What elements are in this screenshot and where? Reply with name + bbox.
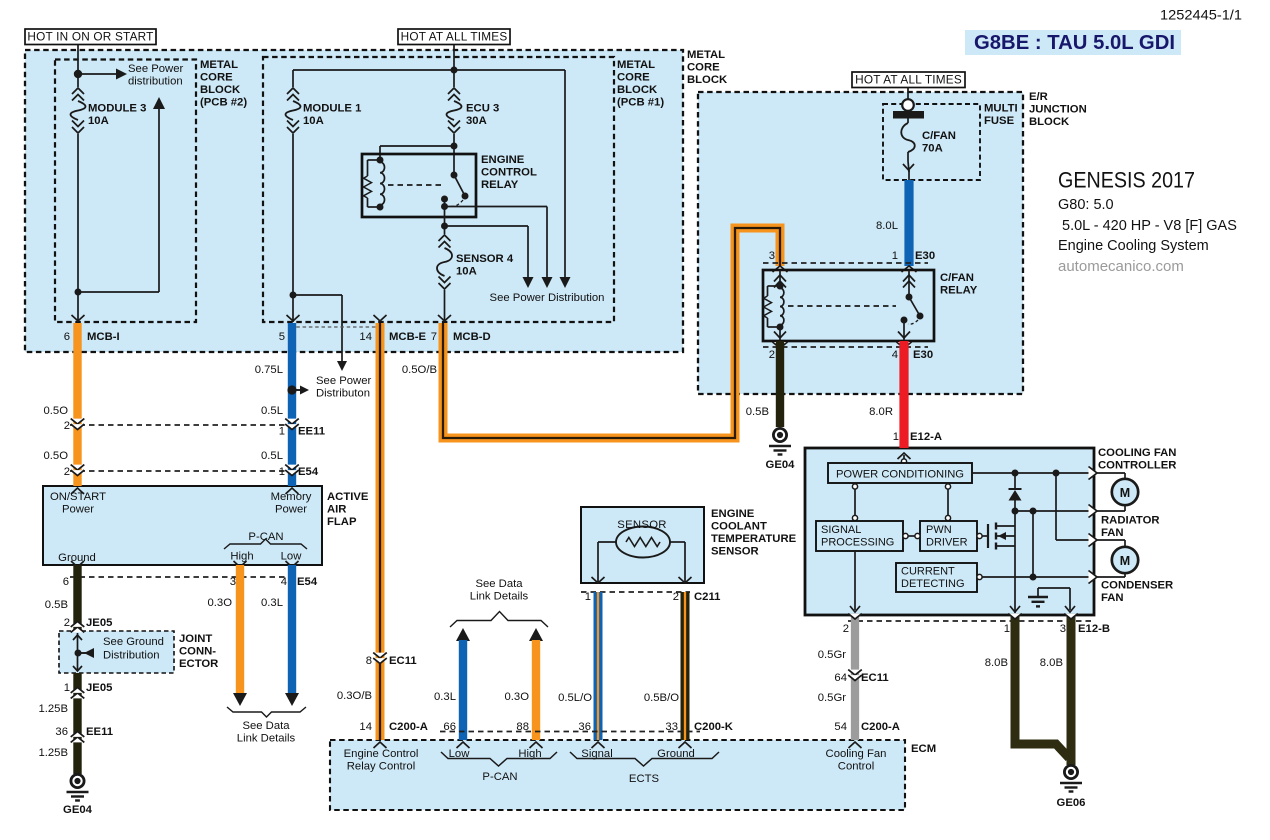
- header HOT IN ON OR START: [25, 29, 156, 45]
- wire CD to condenser return: [982, 576, 1090, 578]
- relay CFR coil wire in: [779, 270, 781, 286]
- svg-text:COOLING FAN: COOLING FAN: [1098, 447, 1176, 459]
- svg-text:PWN: PWN: [926, 524, 952, 536]
- dashed segment below stub 5: [290, 326, 378, 328]
- connector chevron stub MCB-E: [374, 315, 387, 321]
- svg-text:2: 2: [843, 623, 849, 635]
- svg-text:C/FAN: C/FAN: [940, 272, 974, 284]
- fuse SENSOR 4 10A: [439, 235, 451, 241]
- arrow from data link L: [456, 628, 470, 641]
- svg-text:BLOCK: BLOCK: [1029, 116, 1070, 128]
- wire 0.5L/O signal: [594, 592, 603, 740]
- wire branch to see-power arrow: [293, 294, 342, 296]
- svg-text:EC11: EC11: [389, 655, 417, 667]
- svg-text:Distributon: Distributon: [316, 388, 370, 400]
- relay CFR dashed arc: [908, 320, 918, 324]
- svg-text:PROCESSING: PROCESSING: [821, 537, 894, 549]
- arrow down see power distributon: [337, 361, 347, 371]
- dashed row EE11: [70, 424, 296, 426]
- svg-text:Engine Control: Engine Control: [344, 748, 419, 760]
- coolant temp sensor box: [581, 507, 704, 583]
- svg-text:Relay Control: Relay Control: [347, 761, 415, 773]
- wire 0.5O ON/START power: [73, 323, 81, 486]
- svg-text:1: 1: [585, 591, 591, 603]
- svg-text:6: 6: [63, 576, 69, 588]
- svg-text:Cooling Fan: Cooling Fan: [826, 748, 887, 760]
- svg-text:8.0B: 8.0B: [1040, 657, 1063, 669]
- svg-text:0.5Gr: 0.5Gr: [818, 692, 846, 704]
- connector chevron stub MCB-D: [438, 315, 451, 321]
- wire 8.0L: [904, 180, 913, 266]
- node dot condenser return: [1030, 574, 1037, 581]
- svg-text:1: 1: [279, 466, 285, 478]
- joint connector dashed box: [59, 631, 174, 673]
- transistor Q1 bulk stub: [995, 545, 1015, 547]
- wire bus to fuse ECU3: [453, 70, 455, 87]
- svg-text:MODULE 1: MODULE 1: [303, 103, 361, 115]
- joint connector internal arrows: [77, 633, 79, 671]
- svg-text:MULTI: MULTI: [984, 103, 1018, 115]
- connector chevron stub 5: [287, 315, 300, 321]
- svg-text:7: 7: [431, 331, 437, 343]
- svg-text:1.25B: 1.25B: [38, 703, 68, 715]
- connector chevron pin2 E12B: [848, 614, 862, 619]
- relay box U2 C/FAN RELAY: [763, 270, 934, 341]
- svg-text:8: 8: [366, 655, 372, 667]
- svg-text:3: 3: [769, 250, 775, 262]
- connector EC11 on gray wire: [848, 670, 862, 675]
- svg-text:RADIATOR: RADIATOR: [1101, 515, 1160, 527]
- ground GE04 right: [773, 428, 786, 441]
- svg-text:Memory: Memory: [271, 491, 312, 503]
- wire fuse M1 down to stub 5: [292, 134, 294, 322]
- svg-text:E12-A: E12-A: [910, 431, 942, 443]
- svg-text:1.25B: 1.25B: [38, 747, 68, 759]
- dashed row E12-B: [848, 620, 1093, 622]
- diode D1: [1014, 473, 1016, 488]
- svg-text:JOINT: JOINT: [179, 633, 212, 645]
- arrow see power distributon (blue wire): [292, 389, 301, 391]
- svg-text:MCB-E: MCB-E: [389, 331, 426, 343]
- node junction dot module1 branch: [290, 292, 297, 299]
- svg-text:(PCB #1): (PCB #1): [617, 97, 664, 109]
- node dot bus1 b: [1053, 470, 1060, 477]
- terminal circle PC top: [901, 459, 906, 464]
- brace ECTS: [570, 752, 719, 766]
- relay ECR switch pivot: [451, 172, 458, 179]
- svg-text:M: M: [1120, 486, 1130, 500]
- svg-text:SENSOR: SENSOR: [711, 546, 759, 558]
- svg-text:14: 14: [359, 331, 372, 343]
- node A junction dot PCB2 top: [74, 70, 82, 78]
- wire drain node down to condenser return: [1032, 511, 1034, 577]
- connector chevron E30-2: [773, 342, 788, 348]
- svg-text:JE05: JE05: [86, 617, 112, 629]
- wire 0.5O/B MCB-D to C/FAN relay: [443, 228, 780, 438]
- svg-text:0.3O/B: 0.3O/B: [337, 690, 372, 702]
- connector chevron AAF onstart: [71, 488, 84, 494]
- wire CFR contact to pin4: [903, 320, 905, 341]
- svg-text:Ground: Ground: [58, 552, 96, 564]
- svg-text:MCB-D: MCB-D: [453, 331, 491, 343]
- svg-text:0.75L: 0.75L: [255, 364, 283, 376]
- svg-text:HOT AT ALL TIMES: HOT AT ALL TIMES: [855, 73, 962, 87]
- wire SP down to pin2: [854, 551, 856, 610]
- svg-text:HOT AT ALL TIMES: HOT AT ALL TIMES: [401, 30, 508, 44]
- wire branch to power dist arrow 1: [445, 225, 529, 227]
- wire relay NO contact to arrow 2: [445, 206, 548, 208]
- svg-text:M: M: [1120, 554, 1130, 568]
- terminal circle CD right: [977, 574, 982, 579]
- fuse MODULE 1 10A: [287, 88, 299, 94]
- relay ECR dashed throw arc: [450, 200, 463, 206]
- arrow up (module 3 feed): [153, 97, 165, 109]
- fuse MODULE 3 10A: [72, 88, 84, 94]
- node dot drain b: [1030, 508, 1037, 515]
- svg-text:AIR: AIR: [327, 504, 346, 516]
- svg-text:54: 54: [834, 721, 847, 733]
- connector chevron C211-2: [679, 577, 692, 583]
- svg-text:1: 1: [892, 250, 898, 262]
- output chevron condenser return: [1089, 571, 1098, 584]
- wire PC to PWN: [947, 489, 949, 515]
- wire sensor left leg: [598, 541, 616, 543]
- svg-text:ECTOR: ECTOR: [179, 658, 218, 670]
- brace P-CAN AAF: [224, 539, 307, 549]
- svg-text:C200-A: C200-A: [861, 721, 900, 733]
- svg-text:BLOCK: BLOCK: [617, 84, 658, 96]
- svg-text:C200-A: C200-A: [389, 721, 428, 733]
- svg-text:Engine Cooling System: Engine Cooling System: [1058, 238, 1209, 254]
- terminal circle PC bot right: [945, 484, 950, 489]
- connector EE11 on ground wire: [71, 737, 85, 742]
- box SIGNAL PROCESSING: [816, 521, 903, 551]
- svg-text:SENSOR 4: SENSOR 4: [456, 253, 514, 265]
- svg-text:1252445-1/1: 1252445-1/1: [1160, 7, 1242, 23]
- svg-text:See Data: See Data: [242, 720, 290, 732]
- wire fuse M3 to MCB-I stub: [77, 134, 79, 322]
- svg-text:0.5B: 0.5B: [746, 406, 769, 418]
- arrow power dist 3: [560, 277, 571, 288]
- dashed row E30 top: [763, 262, 928, 264]
- motor M1 radiator fan: [1097, 472, 1125, 474]
- ECM box (dashed): [330, 740, 905, 810]
- svg-text:ENGINE: ENGINE: [481, 154, 525, 166]
- svg-text:Link Details: Link Details: [470, 591, 529, 603]
- dashed row C200-K: [440, 731, 700, 733]
- svg-text:ON/START: ON/START: [50, 491, 106, 503]
- wire hot-in-on-or-start to fuse M3: [77, 45, 79, 88]
- svg-text:POWER CONDITIONING: POWER CONDITIONING: [836, 469, 964, 481]
- connector E54 on orange: [71, 465, 85, 470]
- relay CFR fixed contact: [901, 317, 908, 324]
- svg-text:0.5O: 0.5O: [44, 405, 69, 417]
- svg-text:1: 1: [64, 682, 70, 694]
- dashed row E30 bottom: [763, 346, 928, 348]
- svg-text:2: 2: [64, 617, 70, 629]
- wire 1.25B below joint box: [73, 673, 81, 774]
- svg-text:METAL: METAL: [200, 59, 238, 71]
- svg-text:C/FAN: C/FAN: [922, 130, 956, 142]
- wire hot-at-all-times to multifuse: [907, 87, 909, 100]
- connector chevron AAF low out: [286, 561, 299, 567]
- terminal circle PWN left: [915, 533, 920, 538]
- relay CFR coil: [777, 283, 784, 290]
- svg-text:64: 64: [834, 672, 847, 684]
- wire 0.3L pcan low to ECM: [459, 640, 467, 740]
- box CURRENT DETECTING: [896, 563, 977, 592]
- svg-text:FLAP: FLAP: [327, 516, 357, 528]
- relay box U1 ENGINE CONTROL RELAY: [362, 154, 476, 217]
- svg-text:6: 6: [64, 331, 70, 343]
- ground (controller internal): [1037, 588, 1039, 596]
- svg-text:Power: Power: [62, 504, 94, 516]
- svg-text:E54: E54: [297, 576, 318, 588]
- wire node to sensor4 fuse: [444, 226, 446, 234]
- relay ECR mech link (dashed): [388, 184, 442, 186]
- relay ECR coil: [377, 157, 384, 164]
- wire PC out to fan bus: [972, 472, 1090, 474]
- node junction dot PCB2 bottom: [75, 289, 82, 296]
- svg-text:10A: 10A: [456, 266, 477, 278]
- svg-text:0.3L: 0.3L: [434, 691, 456, 703]
- svg-text:C211: C211: [694, 591, 720, 603]
- svg-text:EE11: EE11: [86, 726, 113, 738]
- header HOT AT ALL TIMES (right): [852, 72, 965, 88]
- svg-text:2: 2: [64, 466, 70, 478]
- svg-text:Power: Power: [275, 504, 307, 516]
- svg-text:C200-K: C200-K: [694, 721, 734, 733]
- arrow see power distribution left: [116, 69, 127, 80]
- svg-text:3: 3: [230, 576, 236, 588]
- svg-text:See Power: See Power: [316, 375, 371, 387]
- output chevron radiator return: [1089, 505, 1098, 518]
- wire 8.0B left: [1015, 615, 1069, 758]
- svg-text:ECTS: ECTS: [629, 773, 660, 785]
- arrow chevron pin2: [850, 606, 860, 612]
- wire top bus PCB1: [293, 69, 565, 71]
- connector chevron MCB-I: [72, 315, 85, 321]
- wire drain node to radiator return: [1015, 510, 1090, 512]
- svg-text:G80: 5.0: G80: 5.0: [1058, 197, 1114, 213]
- wire bus to fuse MODULE 1: [292, 70, 294, 87]
- svg-text:ENGINE: ENGINE: [711, 508, 755, 520]
- title G8BE : TAU 5.0L GDI: [965, 30, 1181, 55]
- node dot drain a: [1012, 508, 1019, 515]
- wire PC to SP: [854, 489, 856, 515]
- svg-text:MODULE 3: MODULE 3: [88, 103, 146, 115]
- svg-text:5: 5: [279, 331, 285, 343]
- terminal circle PC bot left: [852, 484, 857, 489]
- svg-text:ECM: ECM: [911, 743, 936, 755]
- svg-text:JE05: JE05: [86, 682, 112, 694]
- svg-text:CORE: CORE: [617, 72, 650, 84]
- svg-text:See Ground: See Ground: [103, 636, 164, 648]
- wire node to relay coil: [380, 145, 454, 147]
- transistor Q1 source stub with arrow: [995, 535, 1015, 537]
- wire 0.75L memory power: [288, 323, 296, 486]
- relay ECR fixed contact: [441, 196, 448, 203]
- wire 0.5Gr cooling fan control: [851, 615, 859, 740]
- svg-text:CONN-: CONN-: [179, 646, 216, 658]
- wire ECR contact down: [444, 199, 446, 226]
- wire 0.5B/O ground: [681, 592, 690, 740]
- svg-text:8.0L: 8.0L: [876, 220, 898, 232]
- dashed row E54 upper: [70, 470, 296, 472]
- connector EE11 on blue: [285, 419, 299, 424]
- svg-text:E30: E30: [913, 349, 933, 361]
- wire 0.3L low: [288, 565, 296, 693]
- svg-text:70A: 70A: [922, 143, 943, 155]
- svg-text:E/R: E/R: [1029, 91, 1048, 103]
- svg-text:0.5B: 0.5B: [45, 599, 68, 611]
- connector chevron C211-1: [592, 577, 605, 583]
- svg-text:COOLANT: COOLANT: [711, 521, 767, 533]
- arrow end low: [285, 693, 299, 706]
- svg-text:CONTROL: CONTROL: [481, 167, 537, 179]
- fuse ECU 3 30A: [448, 88, 460, 94]
- svg-text:0.5L: 0.5L: [261, 405, 283, 417]
- arrow chevron pin3: [1065, 606, 1075, 612]
- svg-text:EE11: EE11: [298, 426, 325, 438]
- motor M2 condenser fan: [1097, 539, 1125, 541]
- svg-text:2: 2: [769, 349, 775, 361]
- svg-text:GENESIS 2017: GENESIS 2017: [1058, 168, 1195, 193]
- connector chevron E30-3: [773, 266, 788, 272]
- svg-text:0.3O: 0.3O: [505, 691, 530, 703]
- wire 0.3O pcan high to ECM: [532, 640, 540, 740]
- svg-text:E54: E54: [298, 466, 319, 478]
- inner dashed box PCB #2: [55, 60, 196, 323]
- svg-text:ECU 3: ECU 3: [466, 103, 499, 115]
- relay ECR switch blade: [454, 175, 465, 196]
- svg-text:E12-B: E12-B: [1078, 623, 1110, 635]
- node dot bus1 a: [1012, 470, 1019, 477]
- svg-text:5.0L - 420 HP - V8 [F] GAS: 5.0L - 420 HP - V8 [F] GAS: [1062, 218, 1237, 234]
- connector chevron E30-1: [902, 266, 917, 272]
- brace P-CAN (ECM): [441, 752, 557, 766]
- inner dashed box PCB #1: [263, 57, 614, 322]
- svg-text:GE04: GE04: [63, 804, 93, 816]
- svg-text:0.3O: 0.3O: [208, 597, 233, 609]
- arrow ground distribution: [78, 652, 86, 654]
- connector EE11 on orange: [71, 419, 85, 424]
- terminal circle SP right: [903, 533, 908, 538]
- connector chevron AAF memory: [286, 488, 299, 494]
- svg-text:METAL: METAL: [617, 59, 655, 71]
- ground GE04 left: [71, 774, 84, 787]
- svg-text:2: 2: [64, 420, 70, 432]
- brace see data link (lower): [227, 707, 306, 717]
- svg-text:36: 36: [55, 726, 68, 738]
- connector E54 on blue: [285, 465, 299, 470]
- node junction dot ECU3 out: [451, 143, 458, 150]
- connector JE05 lower: [71, 693, 85, 698]
- connector chevrons into ECM: [374, 742, 387, 748]
- svg-text:BLOCK: BLOCK: [687, 74, 728, 86]
- svg-text:CORE: CORE: [200, 72, 233, 84]
- connector chevron E30-4: [897, 342, 912, 348]
- arrow power dist 1: [523, 277, 534, 288]
- wire E12A to power conditioning: [903, 455, 905, 459]
- svg-text:JUNCTION: JUNCTION: [1029, 104, 1087, 116]
- connector JE05 upper: [71, 627, 85, 632]
- metal core block outer (light blue dashed): [25, 50, 683, 352]
- svg-text:Low: Low: [281, 551, 303, 563]
- wire 0.3O high: [236, 565, 244, 693]
- svg-text:8.0B: 8.0B: [985, 657, 1008, 669]
- wire CFR coil to pin2: [779, 327, 781, 341]
- wire branch to see power distribution (left): [78, 73, 117, 75]
- connector chevron AAF ground out: [71, 561, 84, 567]
- relay CFR parallel resistor: [768, 285, 781, 287]
- svg-text:8.0R: 8.0R: [869, 406, 893, 418]
- svg-text:FAN: FAN: [1101, 527, 1124, 539]
- relay ECR parallel resistor: [368, 159, 381, 161]
- arrow power dist 2: [542, 277, 553, 288]
- svg-text:FAN: FAN: [1101, 592, 1124, 604]
- node junction dot top bus: [451, 67, 458, 74]
- svg-text:automecanico.com: automecanico.com: [1058, 258, 1184, 275]
- wire 0.5B relay coil ground: [776, 341, 784, 427]
- box PWN DRIVER: [920, 521, 977, 551]
- svg-text:FUSE: FUSE: [984, 115, 1015, 127]
- svg-text:3: 3: [1060, 623, 1066, 635]
- header HOT AT ALL TIMES (left): [398, 29, 510, 45]
- svg-text:0.5B/O: 0.5B/O: [644, 692, 679, 704]
- svg-text:0.5L/O: 0.5L/O: [558, 692, 592, 704]
- relay CFR switch wire in: [908, 270, 910, 297]
- svg-text:0.5Gr: 0.5Gr: [818, 649, 846, 661]
- wire node to relay switch: [453, 146, 455, 175]
- svg-text:SENSOR: SENSOR: [617, 519, 667, 531]
- wire sensor4 fuse to MCB-D stub: [444, 290, 446, 322]
- svg-text:14: 14: [359, 721, 372, 733]
- svg-text:P-CAN: P-CAN: [248, 531, 283, 543]
- wire bus right to arrow 3: [564, 70, 566, 277]
- box POWER CONDITIONING: [828, 463, 972, 483]
- relay CFR mech link dashed: [788, 305, 896, 307]
- arrow from data link H: [529, 628, 543, 641]
- svg-text:0.5O: 0.5O: [44, 450, 69, 462]
- transistor Q1 channel segments: [995, 523, 997, 530]
- svg-text:4: 4: [892, 349, 898, 361]
- svg-text:(PCB #2): (PCB #2): [200, 97, 247, 109]
- cooling fan controller box: [805, 448, 1094, 615]
- transistor Q1 mosfet gate bar: [987, 524, 989, 548]
- wire sensor right leg: [670, 541, 685, 543]
- ground GE06: [1064, 765, 1077, 778]
- wire 8.0R: [899, 341, 908, 448]
- svg-text:CURRENT: CURRENT: [901, 566, 955, 578]
- terminal circle SP top: [852, 515, 857, 520]
- connector EC11 on MCB-E wire: [373, 653, 387, 658]
- svg-text:GE04: GE04: [766, 459, 796, 471]
- arrow end high: [233, 693, 247, 706]
- wire ECU3 to relay node: [453, 134, 455, 146]
- svg-text:distribution: distribution: [128, 76, 183, 88]
- svg-text:RELAY: RELAY: [940, 285, 978, 297]
- svg-text:30A: 30A: [466, 115, 487, 127]
- connector chevron pin1 E12B: [1008, 614, 1022, 619]
- svg-text:HOT IN ON OR START: HOT IN ON OR START: [27, 30, 153, 44]
- svg-text:CONTROLLER: CONTROLLER: [1098, 460, 1176, 472]
- svg-text:EC11: EC11: [861, 672, 889, 684]
- multi fuse dashed box: [883, 104, 980, 180]
- output chevron radiator feed: [1089, 467, 1098, 480]
- svg-text:0.3L: 0.3L: [261, 597, 283, 609]
- svg-text:See Data: See Data: [475, 578, 523, 590]
